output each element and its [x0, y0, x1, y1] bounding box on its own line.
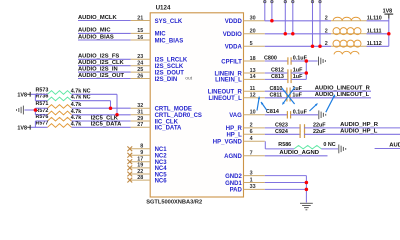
svg-text:I2C5_DATA: I2C5_DATA: [91, 122, 123, 128]
svg-text:I2S_DOUT: I2S_DOUT: [155, 70, 185, 76]
svg-text:NC5: NC5: [155, 172, 168, 178]
svg-text:NC6: NC6: [155, 178, 168, 184]
svg-text:2: 2: [325, 41, 328, 47]
svg-text:L110: L110: [370, 16, 382, 22]
svg-text:SGTL5000XNBA3/R2: SGTL5000XNBA3/R2: [146, 200, 202, 206]
svg-text:CPFILT: CPFILT: [221, 59, 242, 65]
svg-text:NC1: NC1: [155, 147, 168, 153]
svg-text:CRTL_MODE: CRTL_MODE: [155, 107, 192, 113]
svg-text:22: 22: [137, 169, 143, 175]
svg-text:4.7k: 4.7k: [71, 109, 82, 115]
svg-text:NC2: NC2: [155, 154, 168, 160]
svg-text:C813: C813: [271, 74, 284, 80]
svg-text:SYS_CLK: SYS_CLK: [155, 19, 183, 25]
svg-text:20: 20: [250, 29, 256, 35]
svg-text:17: 17: [137, 157, 143, 163]
svg-text:I2S_DIN: I2S_DIN: [155, 77, 178, 83]
svg-text:19: 19: [137, 163, 143, 169]
svg-text:8: 8: [140, 144, 143, 150]
svg-text:18: 18: [250, 56, 256, 62]
svg-text:4.7k: 4.7k: [71, 121, 82, 127]
svg-text:5: 5: [250, 41, 253, 47]
svg-text:I2C5_CLK: I2C5_CLK: [91, 115, 119, 121]
svg-text:4.7k: 4.7k: [71, 102, 82, 108]
svg-text:I2S_SCLK: I2S_SCLK: [155, 64, 184, 70]
svg-text:MIC_BIAS: MIC_BIAS: [155, 38, 184, 44]
svg-text:HP_R: HP_R: [226, 126, 243, 132]
svg-text:10: 10: [250, 110, 256, 116]
svg-text:AUDIO_MCLK: AUDIO_MCLK: [78, 15, 117, 21]
svg-text:R571: R571: [36, 101, 49, 107]
svg-text:VAG: VAG: [229, 113, 242, 119]
svg-text:out: out: [185, 75, 192, 81]
svg-text:PAD: PAD: [230, 188, 243, 194]
svg-text:AUDIO_I2S_FS: AUDIO_I2S_FS: [78, 54, 119, 60]
svg-text:2: 2: [325, 29, 328, 35]
svg-text:L111: L111: [370, 29, 382, 35]
svg-text:I2S_LRCLK: I2S_LRCLK: [155, 58, 188, 64]
svg-text:LINEOUT_L: LINEOUT_L: [208, 96, 242, 102]
svg-text:AUDIO_LINEOUT_L: AUDIO_LINEOUT_L: [315, 92, 370, 98]
svg-text:AUDIO_I2S_CLK: AUDIO_I2S_CLK: [78, 60, 125, 66]
svg-text:NC4: NC4: [155, 166, 168, 172]
svg-text:33: 33: [250, 184, 256, 190]
svg-text:C924: C924: [275, 129, 288, 135]
svg-text:29: 29: [137, 116, 143, 122]
svg-text:27: 27: [137, 122, 143, 128]
svg-text:14: 14: [250, 74, 256, 80]
svg-text:2: 2: [325, 16, 328, 22]
svg-text:VDDIO: VDDIO: [223, 32, 242, 38]
svg-text:26: 26: [137, 73, 143, 79]
svg-text:LINEOUT_R: LINEOUT_R: [208, 90, 243, 96]
svg-text:AUDIO_LINEOUT_R: AUDIO_LINEOUT_R: [315, 86, 371, 92]
svg-text:28: 28: [137, 175, 143, 181]
svg-text:AUDIO_I2S_IN: AUDIO_I2S_IN: [78, 66, 118, 72]
svg-text:NC3: NC3: [155, 160, 168, 166]
svg-text:VDDA: VDDA: [225, 45, 243, 51]
svg-text:AUDIO_HP_L: AUDIO_HP_L: [340, 128, 378, 134]
svg-text:AUDIO_MIC: AUDIO_MIC: [78, 28, 111, 34]
svg-text:1: 1: [250, 177, 253, 183]
svg-text:1V8: 1V8: [383, 8, 393, 14]
svg-text:23: 23: [137, 54, 143, 60]
svg-text:AUDIO_AGND: AUDIO_AGND: [279, 150, 319, 156]
svg-text:CRTL_ADR0_CS: CRTL_ADR0_CS: [155, 113, 202, 119]
svg-text:2: 2: [250, 123, 253, 129]
svg-text:C811: C811: [270, 92, 283, 98]
svg-text:15: 15: [137, 28, 143, 34]
svg-text:IIC_CLK: IIC_CLK: [155, 119, 179, 125]
svg-text:21: 21: [137, 15, 143, 21]
svg-text:L112: L112: [370, 41, 382, 47]
svg-text:1V8: 1V8: [17, 92, 27, 98]
svg-text:12: 12: [250, 93, 256, 99]
svg-text:R573: R573: [36, 87, 49, 93]
svg-text:9: 9: [140, 150, 143, 156]
svg-text:LINEIN_L: LINEIN_L: [215, 78, 242, 84]
svg-text:16: 16: [137, 35, 143, 41]
svg-text:1V8: 1V8: [17, 125, 27, 131]
svg-text:6: 6: [250, 129, 253, 135]
svg-text:4.7k NC: 4.7k NC: [71, 88, 91, 94]
svg-text:AUDIO: AUDIO: [389, 142, 400, 148]
svg-text:24: 24: [137, 61, 143, 67]
svg-text:R586: R586: [278, 142, 291, 148]
svg-text:0 NC: 0 NC: [323, 142, 335, 148]
svg-text:HP_L: HP_L: [226, 133, 242, 139]
svg-text:C923: C923: [275, 123, 288, 129]
svg-text:U124: U124: [156, 4, 171, 11]
svg-text:C812: C812: [271, 68, 284, 74]
svg-text:AUDIO_HP_R: AUDIO_HP_R: [340, 122, 379, 128]
svg-text:7: 7: [250, 151, 253, 157]
svg-text:3: 3: [250, 170, 253, 176]
svg-text:VDDD: VDDD: [225, 19, 243, 25]
svg-text:31: 31: [137, 110, 143, 116]
svg-text:13: 13: [250, 68, 256, 74]
svg-text:AUDIO_I2S_OUT: AUDIO_I2S_OUT: [78, 73, 125, 79]
svg-text:AUDIO_BIAS: AUDIO_BIAS: [78, 34, 114, 40]
svg-text:C810: C810: [270, 86, 283, 92]
svg-text:11: 11: [250, 86, 256, 92]
svg-text:25: 25: [137, 67, 143, 73]
svg-text:4.7k NC: 4.7k NC: [71, 95, 91, 101]
svg-text:4: 4: [250, 136, 253, 142]
svg-text:MIC: MIC: [155, 32, 167, 38]
svg-text:C800: C800: [264, 55, 277, 61]
svg-text:4.7k: 4.7k: [71, 115, 82, 121]
svg-text:AGND: AGND: [224, 154, 242, 160]
svg-text:HP_VGND: HP_VGND: [213, 140, 243, 146]
svg-text:IIC_DATA: IIC_DATA: [155, 126, 182, 132]
svg-text:30: 30: [250, 16, 256, 22]
svg-text:GND2: GND2: [225, 174, 242, 180]
svg-text:32: 32: [137, 103, 143, 109]
svg-text:GND1: GND1: [225, 181, 242, 187]
svg-text:LINEIN_R: LINEIN_R: [214, 71, 242, 77]
svg-text:C814: C814: [266, 109, 279, 115]
